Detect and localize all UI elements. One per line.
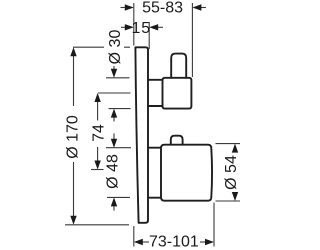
dimension D170: top extension line [73,46,130,48]
dimension 73-101: left arrow [142,241,149,243]
dimension D170: dimension line with arrows [73,49,75,223]
dimension 73-101: right arrow [200,241,206,243]
dimension 55-83: handle-front extension line (right) [191,3,193,77]
svg-text:73-101: 73-101 [149,234,199,250]
svg-text:74: 74 [90,124,107,142]
svg-text:1: 1 [132,20,141,37]
svg-text:Ø 170: Ø 170 [65,115,82,159]
wall plate (escutcheon, side view) [135,47,148,223]
dimension D54: top extension line (knob top) [216,143,241,145]
dimension 15: left arrow [121,26,132,28]
dimension D30: bottom arrow (outside, pointing up) [113,114,115,122]
dimension 74: bottom extension line (knob centerline) [91,169,104,171]
dimension D48: bottom extension line (knob sleeve bottom) [107,196,130,198]
dimension D54: dimension line with arrows [234,145,236,200]
dimension 55-83: right arrow [194,7,206,9]
dimension 74: dimension line with arrows [97,95,99,169]
svg-text:5: 5 [141,20,150,37]
dimension 15: sleeve extension line (right) [148,22,150,49]
dimension 15: right arrow [151,26,163,28]
dimension D48: top arrow (outside, pointing down) [113,134,115,142]
dimension D48: top extension line (knob sleeve top) [106,147,131,149]
lower knob connector sleeve [148,148,161,198]
dimension D30: top extension line (handle body top) [106,77,130,79]
knob grip bump [171,136,183,145]
svg-text:55-83: 55-83 [142,0,183,16]
dimension 55-83: wall-face extension line (left) [133,3,135,46]
dimension D30: bottom extension line (handle body bottom) [109,108,131,110]
dimension 74: top extension line (upper handle centerline) [98,92,131,94]
lower temperature knob [161,145,212,201]
dimension D30: top arrow (outside, pointing down) [113,66,115,72]
upper handle stem [171,54,186,78]
svg-text:Ø 48: Ø 48 [105,154,122,189]
dimension D54: bottom extension line (knob bottom) [216,200,241,202]
dimension 73-101: knob-front extension line (right) [213,203,215,247]
upper handle body [163,78,192,109]
svg-text:Ø 30: Ø 30 [107,30,124,65]
dimension D48: bottom arrow (outside, pointing up) [113,204,115,211]
dimension 55-83: left arrow [121,7,133,9]
dimension 73-101: wall-face extension line (bottom left) [133,226,135,247]
upper handle connector sleeve [148,80,163,106]
svg-text:Ø 54: Ø 54 [223,155,240,190]
dimension D170: bottom extension line [65,224,129,226]
